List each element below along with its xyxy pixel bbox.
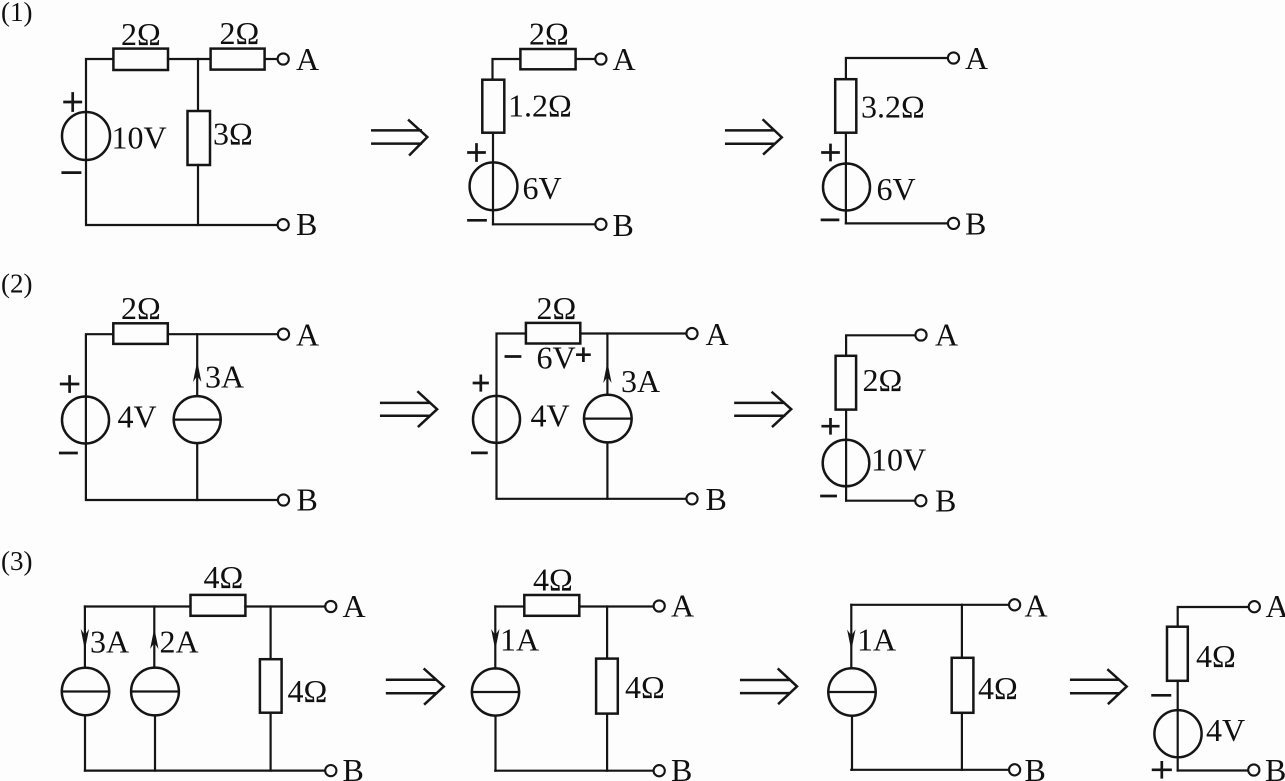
voltage source 4V circle (circuit 2b) — [473, 396, 520, 443]
svg-text:2Ω: 2Ω — [220, 15, 260, 51]
wire branch 4Ω upper (circuit 3c) — [961, 605, 963, 658]
wire top circuit 3a — [85, 605, 191, 607]
svg-text:3Ω: 3Ω — [213, 116, 253, 152]
wire left loop circuit 2a — [86, 334, 277, 500]
resistor 2Ω (circuit 2c) — [836, 356, 857, 410]
node B terminal circuit 1c — [948, 218, 959, 229]
svg-text:4Ω: 4Ω — [1196, 638, 1236, 674]
svg-text:4Ω: 4Ω — [625, 669, 665, 705]
svg-text:3.2Ω: 3.2Ω — [861, 89, 925, 125]
current arrow 2A upward — [150, 628, 158, 649]
current source 3A circle (circuit 3a) — [62, 668, 109, 715]
current source bar — [828, 691, 875, 693]
svg-text:A: A — [296, 41, 319, 77]
wire branch 2A source lower — [154, 715, 156, 770]
minus sign of 4V source — [60, 452, 76, 455]
svg-text:A: A — [935, 317, 958, 353]
svg-text:4V: 4V — [118, 399, 157, 435]
minus sign of 6V source — [822, 219, 838, 222]
transform arrow 6 — [741, 669, 797, 703]
current arrow 3A downward — [81, 629, 89, 650]
plus sign of 6V source — [823, 145, 839, 160]
plus sign of 10V source — [823, 419, 838, 433]
wire branch 4Ω lower — [270, 713, 272, 771]
svg-text:B: B — [935, 483, 956, 519]
transform arrow 7 — [1071, 670, 1127, 703]
node B terminal circuit 3d — [1248, 764, 1259, 775]
svg-text:4Ω: 4Ω — [204, 559, 244, 595]
current arrow 1A downward — [847, 630, 855, 651]
wire branch 1A source lower — [494, 716, 496, 771]
svg-text:10V: 10V — [871, 442, 926, 478]
svg-text:A: A — [671, 588, 694, 624]
current source 2A circle (circuit 3a) — [131, 668, 179, 716]
svg-text:4V: 4V — [531, 398, 570, 434]
svg-text:B: B — [706, 481, 727, 517]
svg-text:4Ω: 4Ω — [978, 670, 1018, 706]
minus sign of 4V source — [1153, 694, 1170, 697]
svg-text:B: B — [1025, 752, 1046, 781]
wire branch 2A source upper — [153, 607, 155, 668]
resistor 4Ω top (circuit 3b) — [524, 595, 579, 616]
node B terminal circuit 3c — [1009, 764, 1020, 775]
svg-text:B: B — [965, 206, 986, 242]
current source 3A circle (circuit 2a) — [174, 396, 221, 443]
resistor 4Ω (circuit 3c) — [952, 658, 974, 713]
svg-text:6V: 6V — [537, 340, 576, 376]
node A terminal circuit 2a — [278, 329, 289, 340]
resistor 1.2Ω (circuit 1b) — [482, 80, 504, 133]
svg-text:1A: 1A — [500, 622, 539, 658]
svg-text:A: A — [1266, 588, 1285, 624]
minus sign of 6V source — [469, 219, 486, 222]
svg-text:3A: 3A — [621, 363, 660, 399]
wire top left circuit 3b — [495, 605, 524, 607]
current source bar — [131, 690, 179, 692]
wire middle branch — [197, 59, 199, 111]
svg-text:A: A — [343, 588, 366, 624]
svg-text:A: A — [296, 317, 319, 353]
current source bar — [584, 418, 632, 420]
plus sign of 6V drop — [577, 349, 589, 361]
svg-text:B: B — [296, 206, 317, 242]
svg-text:1.2Ω: 1.2Ω — [508, 88, 572, 124]
svg-text:B: B — [1265, 752, 1285, 781]
node B terminal circuit 1b — [595, 219, 606, 230]
plus sign of 4V source — [61, 377, 78, 392]
node B terminal circuit 3b — [654, 765, 665, 776]
voltage source 4V circle (circuit 3d) — [1154, 710, 1201, 757]
wire to terminal A — [265, 58, 278, 60]
node B terminal circuit 1a — [278, 219, 289, 230]
plus sign of 6V source — [469, 145, 485, 161]
svg-text:B: B — [343, 752, 364, 781]
current arrow 1A downward — [491, 629, 499, 650]
wire current branch lower — [196, 443, 198, 500]
wire through source circuit 2c — [845, 410, 847, 501]
svg-text:4Ω: 4Ω — [533, 562, 573, 598]
svg-text:2Ω: 2Ω — [537, 290, 577, 326]
current source bar — [472, 691, 519, 693]
current source 3A circle (circuit 2b) — [584, 395, 632, 443]
svg-text:10V: 10V — [112, 120, 167, 156]
svg-text:4Ω: 4Ω — [288, 673, 328, 709]
wire top to terminal A — [168, 333, 277, 335]
current source bar — [174, 419, 221, 421]
wire through source circuit 1c — [845, 133, 847, 224]
transform arrow 5 — [387, 669, 444, 704]
wire branch 3A source upper — [84, 607, 86, 668]
plus sign of 4V source — [1153, 762, 1170, 777]
wire left loop circuit 2b — [497, 334, 686, 499]
resistor 3Ω (circuit 1a) — [188, 111, 211, 165]
resistor 2Ω (circuit 2b) — [526, 323, 580, 344]
svg-text:6V: 6V — [523, 170, 562, 206]
current arrow 3A — [193, 361, 201, 382]
svg-text:3A: 3A — [90, 624, 129, 660]
voltage source 10V circle — [62, 112, 110, 160]
svg-text:4V: 4V — [1206, 712, 1245, 748]
svg-text:2Ω: 2Ω — [529, 16, 569, 52]
wire bottom circuit 3c — [851, 769, 1008, 771]
resistor 2Ω first (circuit 1a) — [113, 49, 168, 70]
wire current branch lower — [606, 443, 608, 499]
resistor 4Ω top (circuit 3a) — [191, 595, 246, 616]
wire between resistors — [168, 58, 211, 60]
node A terminal circuit 1c — [948, 52, 959, 63]
plus sign of 10V source — [65, 94, 81, 111]
resistor 2Ω (circuit 2a) — [113, 323, 168, 344]
resistor 2Ω (circuit 1b) — [520, 49, 575, 69]
node A terminal circuit 2c — [915, 329, 926, 340]
wire bottom circuit 2c — [846, 500, 914, 502]
wire top circuit 3c — [851, 604, 1008, 606]
wire branch 1A source lower (circuit 3c) — [851, 716, 853, 770]
wire top circuit 2c — [846, 335, 914, 356]
voltage source 4V circle (circuit 2a) — [62, 397, 109, 444]
node A terminal circuit 3c — [1009, 599, 1020, 610]
svg-text:B: B — [297, 482, 318, 518]
resistor 4Ω right (circuit 3b) — [596, 659, 618, 714]
current source 1A circle (circuit 3b) — [472, 668, 519, 715]
wire branch 1A source upper — [494, 607, 496, 669]
minus sign of 10V source — [63, 171, 80, 174]
resistor 4Ω right (circuit 3a) — [260, 659, 282, 713]
resistor 4Ω (circuit 3d) — [1167, 627, 1188, 681]
svg-text:(2): (2) — [1, 269, 32, 299]
node B terminal circuit 3a — [325, 765, 336, 776]
node A terminal circuit 3d — [1249, 601, 1260, 612]
svg-text:2Ω: 2Ω — [121, 16, 161, 52]
voltage source 10V circle (circuit 2c) — [823, 440, 870, 487]
wire bottom circuit 1b — [493, 223, 595, 225]
voltage source 6V circle (circuit 1c) — [823, 164, 870, 211]
svg-text:(1): (1) — [1, 0, 32, 27]
svg-text:A: A — [613, 41, 636, 77]
wire branch 4Ω upper (circuit 3b) — [606, 607, 608, 659]
wire branch 3A source lower — [84, 715, 86, 770]
wire bottom circuit 3d — [1178, 769, 1248, 771]
wire top circuit 1b — [493, 59, 521, 80]
wire branch 4Ω upper — [270, 607, 272, 660]
current arrow 3A — [603, 362, 611, 383]
svg-text:2Ω: 2Ω — [121, 290, 161, 326]
wire bottom circuit 3b — [495, 770, 652, 772]
wire bottom circuit 3a — [85, 769, 324, 771]
transform arrow 1 — [372, 120, 427, 154]
node B terminal circuit 2b — [686, 493, 697, 504]
svg-text:1A: 1A — [857, 622, 896, 658]
svg-text:B: B — [613, 207, 634, 243]
wire to terminal A — [576, 58, 595, 60]
wire top right to terminal A — [245, 605, 324, 607]
wire top circuit 1c — [846, 58, 947, 79]
svg-text:B: B — [671, 752, 692, 781]
node A terminal circuit 3b — [654, 600, 665, 611]
node B terminal circuit 2c — [915, 495, 926, 506]
svg-text:2A: 2A — [160, 624, 199, 660]
wire top right to terminal A (circuit 3b) — [579, 605, 652, 607]
wire top to terminal A (circuit 2b) — [580, 332, 685, 334]
transform arrow 3 — [381, 392, 437, 426]
minus sign of 6V drop — [506, 355, 520, 358]
minus sign of 10V source — [822, 495, 836, 498]
svg-text:6V: 6V — [877, 171, 916, 207]
voltage source 6V circle (circuit 1b) — [470, 162, 518, 210]
wire branch 1A source upper (circuit 3c) — [850, 605, 852, 669]
wire branch 4Ω lower (circuit 3c) — [961, 713, 963, 770]
plus sign of 4V source — [474, 376, 488, 391]
svg-text:A: A — [706, 316, 729, 352]
wire through source circuit 3d — [1177, 681, 1179, 771]
svg-text:3A: 3A — [205, 359, 244, 395]
wire bottom circuit 1c — [846, 222, 947, 224]
svg-text:(3): (3) — [1, 546, 32, 576]
resistor 2Ω second (circuit 1a) — [211, 49, 265, 70]
resistor 3.2Ω (circuit 1c) — [835, 79, 856, 133]
current source bar — [62, 690, 109, 692]
wire through source circuit 1b — [492, 133, 494, 225]
current source 1A circle (circuit 3c) — [828, 668, 875, 715]
svg-text:A: A — [965, 40, 988, 76]
node A terminal circuit 1a — [278, 53, 289, 64]
svg-text:A: A — [1025, 588, 1048, 624]
wire top circuit 3d — [1178, 607, 1248, 627]
node A terminal circuit 3a — [325, 601, 336, 612]
wire current branch upper (circuit 2a) — [196, 334, 198, 396]
wire current branch upper (circuit 2b) — [606, 334, 608, 395]
transform arrow 4 — [735, 393, 791, 427]
transform arrow 2 — [726, 120, 782, 154]
minus sign of 4V source — [472, 452, 486, 455]
node B terminal circuit 2a — [278, 494, 289, 505]
node A terminal circuit 1b — [595, 53, 606, 64]
wire middle branch lower — [197, 165, 199, 225]
wire left loop circuit 1a — [86, 59, 277, 225]
node A terminal circuit 2b — [686, 328, 697, 339]
wire branch 4Ω lower (circuit 3b) — [606, 714, 608, 771]
svg-text:2Ω: 2Ω — [863, 362, 903, 398]
